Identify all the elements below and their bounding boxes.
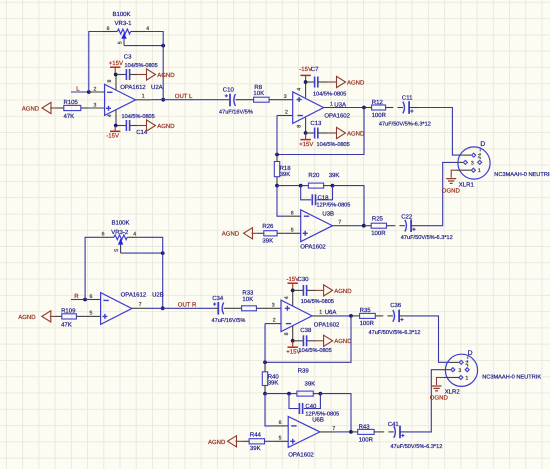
svg-text:AGND: AGND [157,123,175,130]
svg-text:47uF/50V/5%-6.3*12: 47uF/50V/5%-6.3*12 [369,329,421,336]
svg-text:R26: R26 [262,223,274,230]
wire [89,32,103,93]
power port AGND [208,436,243,447]
wire [85,237,99,299]
svg-text:39K: 39K [262,237,273,244]
resistor R18 [274,162,279,177]
wire [223,99,231,101]
svg-text:R35: R35 [360,307,372,314]
svg-text:U3B: U3B [322,211,334,218]
svg-text:OPA1602: OPA1602 [288,451,314,458]
svg-text:1: 1 [330,102,333,108]
svg-text:OUT R: OUT R [178,302,197,309]
svg-text:VR3-2: VR3-2 [111,229,129,236]
svg-text:C13: C13 [310,120,322,127]
svg-text:4: 4 [146,26,149,32]
wire [71,91,89,93]
svg-text:-15V: -15V [106,133,119,140]
capacitor C14 [116,120,138,131]
pin 4 [305,82,307,98]
junction [114,73,118,77]
svg-text:C3: C3 [124,53,132,60]
svg-text:39K: 39K [280,171,291,178]
junction [291,339,295,343]
wire [289,394,299,409]
svg-text:R8: R8 [254,84,262,91]
op-amp U3B [285,210,349,242]
svg-text:5: 5 [279,435,282,441]
junction [349,430,353,434]
resistor R43 [358,429,374,434]
wire [277,186,285,217]
connector XLR1 [458,141,490,179]
svg-text:10K: 10K [253,90,264,97]
wiper arrow [119,239,123,244]
wire [301,186,312,200]
pin 1 [136,99,151,101]
ground OGND [430,378,449,402]
svg-text:104/5%-0805: 104/5%-0805 [317,141,350,148]
svg-text:R39: R39 [298,367,310,374]
svg-text:5: 5 [114,249,120,252]
junction [114,124,118,128]
svg-text:100R: 100R [360,320,375,327]
wire [142,237,163,308]
svg-text:+15V: +15V [299,141,313,148]
power port AGND [316,285,353,296]
svg-text:XLR2: XLR2 [445,389,461,396]
potentiometer VR3-1 [103,26,149,46]
svg-text:U6A: U6A [325,309,337,316]
svg-text:C22: C22 [401,214,413,221]
wire [301,185,309,187]
svg-text:104/5%-0805: 104/5%-0805 [313,91,346,98]
svg-text:1: 1 [142,94,145,100]
resistor R40 [262,372,267,386]
op-amp U6B [272,416,336,447]
svg-text:OPA1602: OPA1602 [300,244,326,251]
svg-text:C18: C18 [318,195,330,202]
svg-text:R105: R105 [64,99,79,106]
svg-text:R43: R43 [359,423,371,430]
shell pin D [478,160,482,164]
svg-text:U2B: U2B [152,292,164,299]
svg-text:AGND: AGND [208,439,226,446]
power port AGND [327,127,365,138]
wire [443,369,451,371]
svg-text:47uF/50V/5%-6.3*12: 47uF/50V/5%-6.3*12 [379,120,431,127]
wire [333,186,365,226]
svg-text:R33: R33 [242,289,254,296]
op-amp U2A [89,75,151,126]
svg-text:C11: C11 [402,94,413,101]
wire [405,316,450,362]
svg-text:C34: C34 [212,295,224,302]
wire [462,154,471,156]
wire [277,185,301,187]
wire [400,431,406,433]
svg-text:104/5%-0805: 104/5%-0805 [299,347,332,354]
shell pin D [465,368,469,372]
svg-text:C30: C30 [298,276,310,283]
svg-text:R25: R25 [372,216,384,223]
pin 4 [115,110,117,125]
wire [121,252,163,254]
svg-text:C41: C41 [388,421,400,428]
pin 6 [273,425,289,427]
svg-text:R18: R18 [280,165,292,172]
wire [264,362,266,372]
pin 1 [312,315,328,317]
svg-text:6: 6 [90,294,93,300]
pin 7 [320,431,336,433]
wire [328,315,351,317]
svg-text:8: 8 [284,332,290,335]
junction [304,80,308,84]
pin 1 [324,107,340,109]
power -15V [299,66,312,82]
wire [71,299,85,301]
svg-text:5: 5 [117,41,123,44]
wire [417,108,462,156]
junction [161,98,165,102]
power port AGND [316,335,353,346]
power port AGND [138,120,175,131]
pin 1 [459,376,463,380]
svg-text:NC3MAAH-0 NEUTRIK: NC3MAAH-0 NEUTRIK [494,172,550,178]
wire [276,177,278,186]
ground OGND [442,170,461,194]
pin 8 [305,118,307,133]
svg-text:R44: R44 [250,431,262,438]
svg-text:R12: R12 [372,99,384,106]
svg-text:10K: 10K [242,296,253,303]
svg-text:C36: C36 [390,302,402,309]
wire [264,324,266,363]
wire [406,370,443,432]
junction [362,106,366,110]
junction [87,90,91,94]
svg-text:47K: 47K [61,321,72,328]
junction [161,306,165,310]
svg-text:7: 7 [338,220,341,226]
resistor R109 [55,314,86,319]
wire [145,32,163,100]
svg-text:AGND: AGND [347,79,365,86]
svg-text:AGND: AGND [334,338,352,345]
capacitor C36 [393,310,404,323]
wire [456,169,471,171]
svg-text:6: 6 [102,232,105,238]
svg-text:OPA1602: OPA1602 [324,113,350,120]
junction [331,184,335,188]
wire [148,307,213,309]
svg-text:C38: C38 [300,327,312,334]
power port AGND [138,69,175,80]
svg-text:B100K: B100K [112,220,130,227]
svg-text:C40: C40 [305,403,317,410]
pin 6 [285,215,301,217]
svg-text:OGND: OGND [430,395,449,402]
capacitor C10 [225,94,236,107]
pin 1 [471,168,475,172]
wire [213,307,219,309]
svg-text:AGND: AGND [334,288,352,295]
op-amp U3A [277,82,340,133]
svg-text:47uF/16V/5%: 47uF/16V/5% [219,109,253,116]
junction [275,184,279,188]
wire [276,116,278,155]
svg-text:6: 6 [107,26,110,32]
wire [417,162,455,225]
wire [450,361,459,363]
svg-text:XLR1: XLR1 [459,182,475,189]
pin 2 [472,153,476,157]
op-amp U6A [265,290,328,340]
pin 6 [85,299,101,301]
capacitor C18 [312,194,315,205]
wire [320,394,351,432]
svg-text:R: R [74,293,79,300]
power port AGND [18,311,54,322]
wire [151,99,223,101]
pin 8 [292,326,294,341]
wire [336,431,351,433]
capacitor C22 [405,219,416,232]
junction [83,298,87,302]
resistor R44 [243,439,272,444]
resistor R105 [57,105,89,110]
svg-text:100R: 100R [372,112,387,119]
svg-text:AGND: AGND [157,72,175,79]
capacitor C11 [403,101,414,114]
power -15V [287,276,300,290]
pin 3 [463,160,467,164]
pin 5 [85,315,101,317]
connector XLR2 [445,350,477,386]
resistor R8 [254,97,270,102]
junction [349,314,353,318]
svg-text:47uF/16V/5%: 47uF/16V/5% [212,317,246,324]
svg-text:8: 8 [297,125,303,128]
resistor R20 [308,183,323,188]
wire [324,185,333,187]
wire [374,431,384,433]
svg-text:3: 3 [94,102,97,108]
wire [265,394,273,426]
pin 3 [89,107,105,109]
svg-text:AGND: AGND [18,314,36,321]
svg-text:4: 4 [284,296,290,299]
wire [340,107,365,109]
svg-text:7: 7 [332,426,335,432]
pin 5 [272,440,288,442]
svg-text:OPA1612: OPA1612 [120,84,146,91]
svg-text:R109: R109 [61,307,76,314]
svg-text:100R: 100R [371,230,386,237]
svg-text:7: 7 [139,302,142,308]
wire [277,108,364,155]
wire [455,161,463,163]
wire [269,99,293,101]
pin 7 [333,225,349,227]
svg-text:39K: 39K [305,381,316,388]
pin 2 [89,91,105,93]
svg-text:12P/5%-0805: 12P/5%-0805 [317,202,351,209]
potentiometer VR3-2 [100,232,142,254]
svg-text:B100K: B100K [113,11,131,18]
junction [263,392,267,396]
capacitor C13 [306,128,327,139]
capacitor C30 [293,285,316,296]
capacitor C38 [293,335,316,346]
svg-text:C10: C10 [223,86,235,93]
wire [444,377,459,379]
resistor R33 [242,306,257,311]
power +15V [299,133,313,148]
junction [275,153,279,157]
wire [351,431,358,433]
svg-text:D: D [480,141,485,148]
capacitor C40 [299,403,302,414]
svg-text:6: 6 [291,210,294,216]
svg-text:OUT L: OUT L [175,93,193,100]
wire [399,315,405,317]
resistor R26 [258,231,285,236]
svg-text:1: 1 [465,376,468,382]
svg-text:OPA1612: OPA1612 [121,292,147,299]
svg-text:4: 4 [133,232,136,238]
svg-text:8: 8 [107,80,113,83]
power +15V [286,341,300,356]
svg-text:3: 3 [471,161,474,167]
power port AGND [22,102,57,113]
svg-text:+15V: +15V [109,60,123,67]
wire [387,225,396,227]
svg-text:3: 3 [458,368,461,374]
svg-text:3: 3 [284,94,287,100]
wire [276,155,278,162]
svg-text:NC3MAAH-0 NEUTRIK: NC3MAAH-0 NEUTRIK [482,374,541,380]
junction [161,251,165,255]
pin 8 [115,75,117,90]
svg-text:5: 5 [291,227,294,233]
resistor R25 [371,223,386,228]
junction [299,184,303,188]
pin 4 [292,290,294,306]
svg-text:AGND: AGND [222,231,240,238]
svg-text:AGND: AGND [347,130,365,137]
wire [313,393,320,395]
op-amp U2B [85,293,147,325]
svg-text:2: 2 [273,318,276,324]
svg-text:47uF/50V/5%-6.3*12: 47uF/50V/5%-6.3*12 [401,234,453,241]
wire [349,225,364,227]
wiper arrow [122,34,126,39]
resistor R39 [297,391,313,396]
svg-text:100R: 100R [359,436,374,443]
svg-text:47K: 47K [64,113,75,120]
power +15V [109,60,123,74]
power port AGND [222,228,258,239]
svg-text:2: 2 [285,109,288,115]
svg-text:6: 6 [279,420,282,426]
svg-text:VR3-1: VR3-1 [115,20,133,27]
svg-text:5: 5 [90,310,93,316]
wire [304,394,321,409]
svg-text:4: 4 [107,114,113,117]
power port AGND [327,76,365,87]
pin 2 [459,360,463,364]
pin 3 [451,368,455,372]
wire [265,393,289,395]
svg-text:104/5%-0805: 104/5%-0805 [125,62,158,69]
pin 2 [277,115,293,117]
svg-text:OGND: OGND [442,187,461,194]
svg-text:4: 4 [297,88,303,91]
wire [364,225,371,227]
svg-text:U6B: U6B [312,417,324,424]
resistor R12 [364,105,403,110]
svg-text:1: 1 [319,310,322,316]
pin 2 [265,323,281,325]
capacitor C41 [394,426,405,439]
svg-text:R20: R20 [308,172,320,179]
svg-text:39K: 39K [250,445,261,452]
junction [362,224,366,228]
wire [256,307,281,309]
resistor R35 [351,313,393,318]
wire [289,393,297,395]
svg-text:C7: C7 [311,66,319,73]
wire [224,307,242,309]
wire [235,99,253,101]
svg-text:AGND: AGND [22,105,40,112]
svg-text:47uF/50V/5%-6.3*12: 47uF/50V/5%-6.3*12 [390,443,442,450]
wire [409,107,417,109]
capacitor C7 [306,77,327,88]
wire [317,186,333,200]
svg-text:R40: R40 [268,374,280,381]
capacitor C3 [116,69,138,80]
svg-text:3: 3 [272,302,275,308]
junction [319,392,323,396]
junction [263,360,267,364]
pin 7 [132,307,148,309]
svg-text:2: 2 [94,86,97,92]
svg-text:1: 1 [478,168,481,174]
svg-text:104/5%-0805: 104/5%-0805 [301,298,334,305]
wire [124,45,163,47]
svg-text:39K: 39K [268,380,279,387]
svg-text:OPA1602: OPA1602 [314,322,340,329]
svg-text:D: D [468,350,473,357]
junction [287,392,291,396]
svg-text:U2A: U2A [151,84,163,91]
pin 5 [285,232,301,234]
svg-text:39K: 39K [329,172,340,179]
wire [411,225,417,227]
wire [264,386,266,394]
junction [291,289,295,293]
wire [265,316,351,362]
junction [161,44,165,48]
junction [304,131,308,135]
svg-text:12P/5%-0805: 12P/5%-0805 [305,411,339,418]
capacitor C34 [213,302,224,315]
power -15V [106,126,120,140]
svg-text:104/5%-0805: 104/5%-0805 [122,113,155,120]
